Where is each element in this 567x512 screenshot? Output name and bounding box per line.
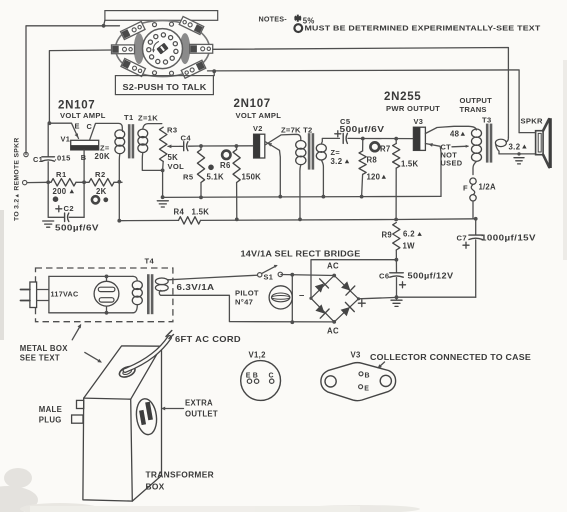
label: VOLT AMPL (second stage) (236, 111, 282, 120)
wire: pilot lamp branch (290, 275, 294, 324)
svg-text:–: – (299, 290, 305, 301)
svg-text:6FT AC CORD: 6FT AC CORD (175, 335, 241, 344)
svg-text:VOLT AMPL: VOLT AMPL (60, 111, 106, 120)
dot marker below R1 (53, 196, 59, 202)
transistor V2 body (254, 134, 265, 158)
arrow: label to transformer box (85, 352, 102, 362)
label: VOLT AMPL (first stage) (60, 111, 106, 120)
switch S2 rotary push-to-talk assembly (104, 11, 218, 79)
svg-text:PILOT: PILOT (235, 289, 259, 298)
marker: circled-dot R6 (222, 151, 230, 159)
svg-text:R8: R8 (367, 156, 378, 165)
svg-text:V2: V2 (253, 124, 263, 133)
label: 1.5K (R7) (401, 159, 418, 168)
AC cord (125, 331, 174, 371)
svg-text:VOLT AMPL: VOLT AMPL (236, 111, 282, 120)
svg-text:B: B (81, 153, 87, 162)
wire: V1 base lead (82, 150, 86, 184)
svg-text:R7: R7 (380, 145, 391, 154)
svg-text:NOTES-: NOTES- (259, 15, 288, 24)
arrow: label to dashed box (72, 324, 81, 340)
male plug tabs (72, 400, 84, 423)
V3 case pins (359, 372, 370, 393)
speaker SPKR (519, 118, 552, 168)
svg-text:TO 3.2▲ REMOTE SPKR: TO 3.2▲ REMOTE SPKR (14, 137, 21, 221)
label: AC (bottom) (327, 327, 339, 336)
capacitor C5 (343, 133, 363, 143)
label: 500uf/6V (C2) (55, 223, 100, 232)
label: SPKR (521, 117, 544, 126)
wire: B- rail left segment (119, 219, 178, 221)
svg-text:E: E (246, 372, 251, 379)
resistor R7 1.5K (393, 139, 400, 222)
svg-text:T4: T4 (145, 256, 155, 265)
wire: AC top wire from S1 (281, 273, 334, 277)
ground below C2 (43, 221, 54, 227)
transformer T1 primary winding (115, 130, 125, 221)
label: E (75, 122, 80, 131)
capacitor C1 (42, 123, 55, 182)
metal box dashed outline (36, 268, 173, 322)
transistor V1 body (71, 140, 99, 150)
label: R8 120 (367, 156, 387, 182)
svg-text:N°47: N°47 (235, 298, 253, 307)
label: 117VAC (51, 290, 79, 299)
resistor R5 5.1K (197, 146, 204, 199)
svg-text:METAL BOX: METAL BOX (20, 344, 68, 353)
label: 3.2 (T3 secondary) (509, 142, 527, 151)
svg-text:USED: USED (441, 159, 463, 168)
svg-text:20K: 20K (95, 152, 111, 161)
svg-text:500µf/12V: 500µf/12V (408, 271, 455, 280)
svg-text:MALE: MALE (39, 405, 62, 414)
svg-text:R1: R1 (56, 170, 67, 179)
label: V3 (414, 117, 424, 126)
transformer T3 primary winding (472, 129, 482, 175)
bridge diode D1 (top-left) (315, 279, 329, 293)
svg-text:PWR OUTPUT: PWR OUTPUT (386, 104, 440, 113)
wire: mid rail (V3 emitter return) (163, 196, 441, 197)
wire: secondary bottom to speaker (499, 152, 536, 155)
label: C (87, 122, 93, 131)
svg-text:R5: R5 (183, 172, 194, 181)
svg-text:Z=: Z= (100, 143, 110, 152)
wire: S2 to T3 secondary (upper feedback wire) (213, 48, 509, 138)
label: R1 (56, 170, 67, 179)
svg-text:C2: C2 (64, 204, 74, 213)
label: R4 1.5K (174, 208, 210, 217)
markers below R2 (92, 196, 108, 203)
label: AC (top) (327, 262, 339, 271)
wire: V3 collector to T3 primary (425, 126, 476, 133)
label: EXTRA OUTLET (185, 399, 218, 419)
transformer T4 primary winding (132, 276, 142, 312)
svg-text:Z=1K: Z=1K (138, 114, 158, 123)
svg-text:1000µf/15V: 1000µf/15V (481, 233, 537, 242)
svg-text:S2-PUSH TO TALK: S2-PUSH TO TALK (123, 82, 208, 92)
dot marker near R5 (208, 165, 214, 171)
wire: line top wire (49, 275, 133, 277)
label: Z= 20K (T1 primary impedance) (95, 143, 111, 161)
capacitor C7 (397, 219, 483, 297)
svg-text:200: 200 (53, 187, 67, 196)
svg-text:B: B (253, 372, 258, 379)
wire: 6.3V wire from T4 to S1 (169, 275, 258, 280)
label: T4 (145, 256, 155, 265)
label: COLLECTOR CONNECTED TO CASE (370, 353, 531, 362)
svg-text:117VAC: 117VAC (51, 290, 79, 299)
svg-text:C1: C1 (33, 155, 43, 164)
bridge diode D2 (top-right) (341, 281, 355, 295)
label: METAL BOX SEE TEXT (20, 344, 68, 363)
label: minus (299, 290, 305, 301)
svg-text:Z=: Z= (331, 148, 341, 157)
wire: bridge minus to C6 rail (311, 260, 396, 299)
rectifier bridge (309, 274, 360, 324)
svg-text:500µf/6V: 500µf/6V (55, 223, 100, 232)
svg-text:2N107: 2N107 (234, 98, 271, 110)
wire: V3 emitter with arrow (425, 143, 441, 196)
transformer T2 core (308, 133, 314, 169)
label: 150K (242, 173, 262, 182)
label: V1,2 (249, 351, 267, 360)
svg-text:1W: 1W (403, 241, 416, 250)
terminal: remote speaker terminal 1 (24, 152, 28, 156)
transformer T3 secondary winding (495, 137, 508, 154)
svg-text:2K: 2K (96, 187, 107, 196)
wire: V1 collector to T1 primary (90, 123, 123, 140)
resistor R6 150K (233, 146, 240, 221)
svg-text:R9: R9 (382, 231, 393, 240)
wire: R1-R2 link (76, 181, 89, 183)
wire: R2 to T1 primary bottom vertical (114, 181, 122, 183)
label: 5K VOL (168, 153, 185, 171)
svg-text:500µf/6V: 500µf/6V (340, 125, 386, 134)
wire: V2 emitter with arrow (265, 142, 282, 199)
svg-text:C: C (87, 122, 93, 131)
label: 2N107 (first stage) (58, 99, 95, 111)
wire: R3 bottom to ground rail (161, 170, 165, 199)
label: R2 (95, 170, 106, 179)
label: V2 (253, 124, 263, 133)
label: R3 (167, 126, 178, 135)
wire: T4 secondary bottom to AC bottom rail (159, 291, 334, 322)
outlet symbol in metal box (94, 275, 119, 315)
label: F 1/2A (463, 183, 496, 193)
label: TO 3.2 REMOTE SPKR (14, 137, 21, 221)
capacitor C2 with base-lead loop (48, 182, 84, 221)
wire: emitter rail from left vertical to V1 E (48, 121, 79, 138)
V1,2 pins (246, 372, 274, 383)
wire: line bottom wire (49, 312, 133, 314)
wire: stub from lower wire to S2 label box (212, 69, 216, 75)
label: T1 (124, 113, 134, 122)
switch S1 (258, 265, 283, 277)
resistor R9 6.2 1W (393, 223, 400, 262)
svg-text:T3: T3 (482, 115, 492, 124)
wire: second wire from S2 to left rail (49, 50, 112, 123)
label: B (81, 153, 87, 162)
svg-text:S1: S1 (264, 272, 274, 281)
label: R9 6.2 1W (382, 230, 422, 251)
svg-text:V1: V1 (61, 135, 71, 144)
svg-text:OUTLET: OUTLET (185, 410, 218, 419)
fuse F 1/2A (470, 178, 476, 219)
svg-text:TRANS: TRANS (460, 105, 487, 114)
svg-text:48: 48 (450, 130, 460, 139)
label: plus (bridge) (358, 300, 365, 307)
label: C1 .015 (33, 154, 71, 165)
svg-text:EXTRA: EXTRA (185, 399, 213, 408)
svg-text:C: C (269, 372, 274, 379)
V3 case outline (TO-3) (321, 363, 396, 401)
svg-text:1.5K: 1.5K (401, 159, 418, 168)
svg-text:COLLECTOR CONNECTED TO CASE: COLLECTOR CONNECTED TO CASE (370, 353, 531, 362)
svg-text:3.2: 3.2 (509, 142, 521, 151)
svg-text:OUTPUT: OUTPUT (460, 96, 493, 105)
svg-text:E: E (364, 386, 369, 393)
label: + C2 (56, 204, 74, 213)
label: R7 (380, 145, 391, 154)
svg-text:MUST BE DETERMINED EXPERIMENTA: MUST BE DETERMINED EXPERIMENTALLY-SEE TE… (305, 24, 541, 33)
svg-text:120: 120 (367, 173, 381, 182)
transformer T4 secondary winding (155, 278, 168, 291)
potentiometer R3 5K VOL (160, 127, 181, 172)
wire: S2 to speaker (lower feedback wire) (208, 70, 520, 133)
label: Z= 3.2 (T2 secondary) (331, 148, 350, 166)
transistor V3 body (413, 127, 425, 150)
label: + C5 (335, 117, 385, 137)
extra outlet oval (134, 398, 158, 436)
svg-text:SPKR: SPKR (521, 117, 544, 126)
label: 14V/1A SEL RECT BRIDGE (241, 249, 362, 258)
svg-text:AC: AC (327, 327, 339, 336)
svg-text:C4: C4 (181, 134, 192, 143)
pilot lamp (269, 286, 292, 309)
wire: top-left wire from S2 to remote-speaker terminal (26, 24, 120, 155)
svg-text:TRANSFORMER: TRANSFORMER (146, 470, 214, 480)
svg-text:BOX: BOX (146, 482, 165, 492)
label: 2K (96, 187, 107, 196)
arrow: collector label to case (378, 362, 385, 368)
svg-text:R2: R2 (95, 170, 106, 179)
svg-text:6.3V/1A: 6.3V/1A (177, 283, 215, 292)
svg-text:2N107: 2N107 (58, 99, 95, 111)
svg-text:R4: R4 (174, 208, 185, 217)
svg-text:VOL: VOL (168, 162, 185, 171)
ground at T3 secondary (514, 158, 524, 164)
transformer T3 core (486, 124, 492, 163)
label: V1 (61, 135, 71, 144)
label: 48 ohm (450, 130, 465, 139)
label: CT NOT USED (441, 143, 470, 168)
label: PILOT N47 (235, 289, 259, 307)
wire: B- rail right segment (201, 217, 478, 221)
svg-text:1/2A: 1/2A (479, 183, 496, 192)
transformer T1 core (128, 124, 134, 158)
V3 case mounting holes (325, 375, 391, 387)
svg-text:3.2: 3.2 (331, 157, 343, 166)
wire: C4 output to V2 base (199, 144, 254, 148)
svg-text:F: F (463, 184, 468, 193)
label: Z=1K (T1 secondary) (138, 114, 158, 123)
capacitor C4 (180, 142, 201, 151)
label: OUTPUT TRANS (460, 96, 493, 114)
svg-text:T1: T1 (124, 113, 134, 122)
capacitor C6 (390, 260, 404, 299)
resistor R1 (51, 179, 76, 186)
svg-text:E: E (75, 122, 80, 131)
label: C7 1000uf/15V (457, 233, 537, 248)
svg-text:14V/1A SEL RECT BRIDGE: 14V/1A SEL RECT BRIDGE (241, 249, 362, 258)
label: R6 (220, 161, 231, 170)
svg-text:C6: C6 (379, 271, 389, 280)
label: 6.3V/1A (177, 283, 215, 292)
svg-text:5.1K: 5.1K (207, 172, 224, 181)
svg-text:6.2: 6.2 (403, 230, 415, 239)
junction: T1 primary bottom / R2 / rail (117, 180, 121, 223)
svg-text:R6: R6 (220, 161, 231, 170)
bridge diode D3 (bottom-left) (315, 304, 329, 318)
svg-text:V3: V3 (414, 117, 424, 126)
label: C6 500uf/12V (379, 271, 454, 288)
resistor R8 120 (359, 139, 366, 199)
wire: bridge plus output (359, 297, 397, 298)
grommet on box top (118, 364, 137, 379)
bridge diode D4 (bottom-right) (341, 302, 355, 316)
svg-text:B: B (365, 373, 370, 380)
label: V3 (case) (351, 351, 362, 360)
svg-text:R3: R3 (167, 126, 178, 135)
svg-text:150K: 150K (242, 173, 262, 182)
svg-text:2N255: 2N255 (384, 91, 421, 103)
note: circled-dot MUST BE DETERMINED EXPERIMENTALLY-SEE TEXT (294, 24, 540, 33)
svg-text:5K: 5K (168, 153, 179, 162)
label: 200 ohm (53, 187, 75, 196)
label: R5 5.1K (183, 172, 224, 181)
marker: circled-dot R7 (370, 142, 379, 151)
label: C4 (181, 134, 192, 143)
label: PWR OUTPUT (386, 104, 440, 113)
resistor R4 1.5K (179, 217, 201, 224)
V1,2 case outline (bottom view) (241, 361, 281, 401)
transformer T2 secondary winding (316, 138, 339, 198)
label: Z=7K T2 (281, 125, 313, 134)
svg-text:PLUG: PLUG (39, 416, 62, 425)
label: TRANSFORMER BOX (146, 470, 214, 492)
node: R1 rail with terminals (27, 180, 51, 184)
label: 2N107 (second stage) (234, 98, 271, 110)
transformer box 3D outline (83, 346, 162, 501)
terminal: remote speaker terminal 2 (23, 180, 27, 184)
label: S1 (264, 272, 274, 281)
wire: C5 out to V3 base (361, 137, 414, 141)
wire: V2 collector to T2 primary (265, 134, 301, 145)
svg-text:V1,2: V1,2 (249, 351, 267, 360)
transformer T4 core (147, 274, 153, 314)
arrow: outlet label to oval (161, 407, 184, 411)
label: T3 (482, 115, 492, 124)
note: NOTES-*5% (259, 15, 315, 26)
label box: S2-PUSH TO TALK (115, 76, 213, 95)
label: MALE PLUG (39, 405, 62, 425)
svg-text:C7: C7 (457, 233, 467, 242)
transformer T2 primary winding (296, 141, 306, 222)
transformer T1 secondary winding (138, 124, 163, 171)
svg-text:1.5K: 1.5K (192, 208, 210, 217)
ground at R3/R5 rail (157, 201, 168, 207)
svg-text:SEE TEXT: SEE TEXT (20, 354, 60, 363)
svg-text:.015: .015 (55, 154, 72, 163)
svg-text:V3: V3 (351, 351, 362, 360)
svg-text:Z=7K T2: Z=7K T2 (281, 125, 313, 134)
label: 2N255 (384, 91, 421, 103)
svg-text:AC: AC (327, 262, 339, 271)
label: 6FT AC CORD (175, 335, 241, 344)
AC plug 117VAC (21, 276, 49, 312)
ground below C6 (391, 297, 402, 306)
resistor R2 (89, 179, 114, 186)
